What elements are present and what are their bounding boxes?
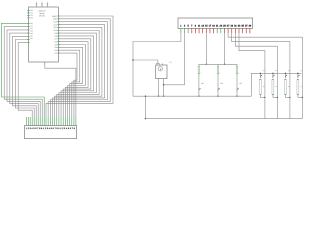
- svg-text:D9: D9: [55, 32, 57, 35]
- svg-text:8: 8: [56, 127, 57, 130]
- IC U1 upper-left pins: [27, 9, 33, 20]
- wire IC right pin 1: [46, 16, 113, 126]
- svg-text:5: 5: [33, 127, 34, 130]
- wire LCD data 6: [15, 40, 34, 126]
- svg-text:C1: C1: [169, 61, 171, 64]
- LED D3 cell with transistor: [284, 69, 290, 98]
- wire IC right pin 14: [57, 53, 77, 126]
- svg-text:D3: D3: [55, 49, 57, 52]
- svg-text:D4: D4: [55, 46, 57, 49]
- svg-text:D5: D5: [55, 43, 57, 46]
- svg-text:D12: D12: [54, 23, 57, 26]
- svg-text:4: 4: [49, 127, 50, 130]
- wire IC right pin 9: [57, 39, 91, 126]
- resistor R2 with transistor Q2: [217, 64, 224, 97]
- IC U1 top power pins: [36, 2, 48, 8]
- svg-text:1kΩ: 1kΩ: [239, 82, 243, 85]
- svg-text:1kΩ: 1kΩ: [220, 82, 224, 85]
- svg-text:b: b: [201, 73, 202, 75]
- svg-text:9: 9: [58, 127, 59, 130]
- wire IC right pin 11: [57, 45, 85, 126]
- wire IC right pin 3: [50, 22, 107, 126]
- wire IC right pin 4: [52, 25, 104, 126]
- wire to capacitor from J2 pin3: [164, 33, 185, 85]
- resistor R3 with transistor Q3: [236, 64, 243, 97]
- wire IC right pin 13: [57, 50, 80, 125]
- wire bus link: [145, 96, 146, 120]
- wire IC right pin 8: [57, 36, 93, 126]
- LCD connector J1 pins: [26, 117, 30, 126]
- svg-text:b: b: [220, 73, 221, 75]
- wire net VCC from J2 pin1: [133, 33, 181, 96]
- svg-text:6: 6: [35, 127, 36, 130]
- svg-text:1kΩ: 1kΩ: [201, 82, 205, 85]
- svg-text:9: 9: [41, 127, 42, 130]
- bottom bus: [146, 118, 303, 120]
- svg-text:GND: GND: [53, 18, 58, 21]
- GPIO header J2 pin stubs: [181, 28, 250, 33]
- wire LCD data 7: [18, 43, 32, 126]
- svg-text:3: 3: [64, 127, 65, 130]
- wire IC right pin 2: [48, 19, 110, 126]
- wire LCD data 4: [10, 33, 38, 126]
- svg-text:1: 1: [60, 127, 61, 130]
- wire IC right pin 12: [57, 47, 82, 125]
- svg-text:4: 4: [32, 127, 33, 130]
- svg-text:4: 4: [66, 127, 67, 130]
- LED D4 cell with transistor: [297, 69, 303, 98]
- wire LCD data 5: [13, 36, 37, 125]
- GPIO header J2 pin numbers: [180, 25, 252, 28]
- svg-text:6: 6: [70, 127, 71, 130]
- wire C1 left pin to VCC: [132, 59, 158, 63]
- LED D2 cell with transistor: [272, 69, 278, 98]
- svg-text:D10: D10: [54, 29, 57, 32]
- IC U1 Arduino Mega body: [29, 7, 59, 62]
- wire LED signal 2: [232, 33, 290, 118]
- GPIO header J2 body: [178, 18, 253, 28]
- LCD connector J1 body: [24, 126, 76, 139]
- wire LCD data 3: [7, 30, 40, 126]
- IC U1 left pin labels: [30, 22, 32, 40]
- wire IC right pin 6: [57, 30, 99, 125]
- wire LCD data 1: [1, 23, 44, 125]
- svg-text:8: 8: [39, 127, 40, 130]
- wire rail to buttons from J2 pin15: [206, 33, 207, 65]
- svg-text:5: 5: [68, 127, 69, 130]
- svg-text:D8: D8: [55, 35, 57, 38]
- svg-text:A6: A6: [30, 37, 32, 40]
- resistor R1 with transistor Q1: [198, 64, 205, 97]
- svg-text:7: 7: [55, 127, 56, 130]
- svg-text:D13: D13: [54, 21, 57, 24]
- wire IC right pin 5: [55, 27, 102, 125]
- wire LED signal 4: [239, 33, 265, 118]
- svg-text:1: 1: [43, 127, 44, 130]
- svg-text:b: b: [239, 73, 240, 75]
- wire LED signal 1: [228, 33, 302, 118]
- wire rail to buttons from J2 pin25: [224, 33, 225, 65]
- svg-text:2: 2: [28, 127, 29, 130]
- svg-text:3: 3: [30, 127, 31, 130]
- svg-text:D2: D2: [55, 52, 57, 55]
- wire C1 leads to GND bus: [158, 79, 164, 97]
- wire GND bus to LED rail: [251, 73, 301, 96]
- wire IC right pin 7: [57, 33, 96, 126]
- svg-text:(Rev3): (Rev3): [39, 14, 45, 17]
- svg-text:7: 7: [37, 127, 38, 130]
- GND bus: [133, 95, 251, 97]
- svg-text:2: 2: [45, 127, 46, 130]
- svg-text:7: 7: [72, 127, 73, 130]
- wire button rail: [199, 63, 237, 65]
- svg-text:3: 3: [47, 127, 48, 130]
- capacitor C1: [156, 61, 172, 79]
- svg-text:2: 2: [62, 127, 63, 130]
- wire IC right pin 10: [57, 42, 88, 126]
- svg-text:D11: D11: [54, 26, 57, 29]
- svg-text:6: 6: [53, 127, 54, 130]
- svg-text:5: 5: [51, 127, 52, 130]
- svg-text:D7: D7: [55, 38, 57, 41]
- wire LCD data 2: [4, 27, 42, 126]
- svg-text:D3: D3: [30, 17, 32, 20]
- svg-text:1: 1: [26, 127, 27, 130]
- svg-text:D6: D6: [55, 40, 57, 43]
- svg-text:8: 8: [74, 127, 75, 130]
- IC U1 right pin labels: [52, 15, 58, 55]
- LED D1 cell with transistor: [259, 69, 265, 98]
- wire LED signal 3: [235, 33, 277, 118]
- wire IC bottom pin: [45, 62, 76, 126]
- LCD connector J1 pin numbers: [26, 127, 75, 130]
